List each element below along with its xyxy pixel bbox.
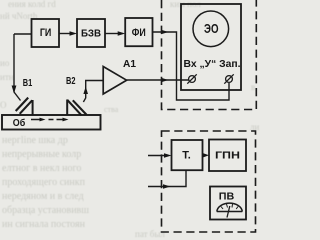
dashed enclosure (oscilloscope unit) bbox=[162, 0, 257, 110]
box ПВ bbox=[210, 187, 246, 220]
arrowhead on bottom wire bbox=[163, 184, 171, 189]
transducer В1 wedge edge bbox=[32, 100, 34, 115]
dashed beam arrow 2 in object bbox=[57, 119, 65, 121]
wire: external input to Т bbox=[148, 155, 167, 157]
wire: vertical drop to В1 bbox=[13, 34, 15, 92]
arrowhead on У wire bbox=[161, 78, 169, 83]
svg-text:ГИ: ГИ bbox=[40, 27, 52, 39]
arrowhead into ФИ bbox=[118, 31, 126, 36]
box ГИ bbox=[32, 19, 60, 47]
dashed beam arrow 1 in object bbox=[31, 119, 42, 121]
svg-text:О: О bbox=[0, 100, 7, 110]
svg-text:Т.: Т. bbox=[182, 150, 191, 162]
wire ГИ to БЗВ bbox=[59, 33, 72, 35]
svg-text:нередяном и в след: нередяном и в след bbox=[2, 191, 84, 202]
wire: ФИ trigger output to Зап terminal bbox=[153, 32, 230, 100]
transducer В1 piezo slash 1 bbox=[16, 98, 29, 111]
transducer В2 wedge edge bbox=[66, 100, 68, 116]
svg-text:Об: Об bbox=[13, 117, 26, 129]
arrowhead on trigger wire bbox=[161, 30, 169, 35]
wire: В2 to amplifier bbox=[83, 81, 103, 103]
svg-text:непрерывные колр: непрерывные колр bbox=[2, 149, 81, 160]
box БЗВ bbox=[77, 19, 105, 47]
svg-text:нергline шка др: нергline шка др bbox=[2, 135, 68, 146]
svg-text:В1: В1 bbox=[23, 77, 33, 89]
terminal Вх bbox=[189, 76, 196, 83]
terminal Зап bbox=[226, 76, 233, 83]
meter arc in ПВ bbox=[217, 203, 243, 211]
oscilloscope ЭО box bbox=[181, 4, 241, 90]
svg-text:пат был: пат был bbox=[135, 229, 165, 238]
svg-text:А1: А1 bbox=[123, 58, 136, 70]
svg-text:ства: ства bbox=[104, 105, 119, 114]
wire: external input to Т bottom bbox=[148, 170, 186, 186]
wire: А1 output to Вх terminal bbox=[127, 79, 189, 81]
svg-text:ФИ: ФИ bbox=[132, 27, 146, 39]
arrowhead down on В1 wire bbox=[12, 86, 17, 94]
op-amp А1 triangle bbox=[103, 67, 126, 95]
transducer В2 piezo slash 2 bbox=[73, 100, 87, 114]
svg-text:итн: итн bbox=[0, 72, 14, 82]
box Т bbox=[172, 140, 203, 170]
arrowhead up on В2 wire bbox=[83, 87, 88, 95]
wire: bend into В1 probe bbox=[14, 92, 21, 101]
svg-text:ин сигнала постоян: ин сигнала постоян bbox=[2, 219, 86, 230]
ЭО screen circle bbox=[193, 11, 229, 47]
svg-text:в: в bbox=[251, 82, 255, 92]
transducer В2 piezo slash 1 bbox=[67, 100, 81, 116]
svg-text:В2: В2 bbox=[66, 75, 76, 87]
box ФИ bbox=[125, 18, 152, 46]
object Об box bbox=[2, 115, 101, 130]
arrowhead into БЗВ bbox=[70, 31, 78, 36]
dashed enclosure (sweep unit) bbox=[162, 131, 256, 232]
svg-text:ения колd гd: ения колd гd bbox=[8, 0, 56, 9]
box ГПН bbox=[209, 140, 246, 172]
svg-text:ГПН: ГПН bbox=[215, 150, 240, 162]
wire: ГИ input (left stub) bbox=[14, 33, 32, 35]
transducer В1 piezo slash 2 bbox=[20, 100, 33, 114]
wire БЗВ to ФИ bbox=[105, 33, 120, 35]
svg-text:проходящего синкп: проходящего синкп bbox=[2, 177, 86, 188]
dashed beam dash bbox=[49, 119, 54, 121]
svg-text:ЭО: ЭО bbox=[204, 22, 219, 36]
meter ticks bbox=[221, 207, 223, 210]
svg-text:ПВ: ПВ bbox=[219, 191, 235, 203]
meter needle bbox=[227, 206, 230, 218]
svg-text:Вх „У“ Зап.: Вх „У“ Зап. bbox=[184, 59, 241, 70]
arrowhead into ГПН bbox=[203, 153, 210, 158]
svg-text:елтног в некл ного: елтног в некл ного bbox=[2, 163, 81, 174]
wire Т to ГПН bbox=[203, 154, 206, 156]
svg-text:БЗВ: БЗВ bbox=[81, 28, 101, 40]
svg-text:образца установивш: образца установивш bbox=[2, 205, 89, 216]
svg-text:ио: ио bbox=[0, 58, 10, 68]
arrowhead into Т bbox=[164, 153, 172, 158]
